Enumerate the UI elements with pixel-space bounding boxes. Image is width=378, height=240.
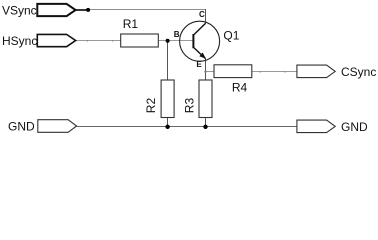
svg-text:GND: GND [8,120,35,134]
svg-text:VSync: VSync [2,3,37,17]
svg-text:R4: R4 [232,81,248,95]
svg-text:CSync: CSync [341,65,376,79]
svg-text:R1: R1 [123,17,139,31]
svg-text:HSync: HSync [2,34,37,48]
svg-text:Q1: Q1 [223,28,239,42]
svg-text:B: B [174,30,180,39]
svg-text:E: E [196,60,202,69]
svg-text:R2: R2 [144,98,158,114]
svg-text:R3: R3 [182,98,196,114]
svg-text:C: C [199,10,205,19]
svg-text:GND: GND [341,120,368,134]
